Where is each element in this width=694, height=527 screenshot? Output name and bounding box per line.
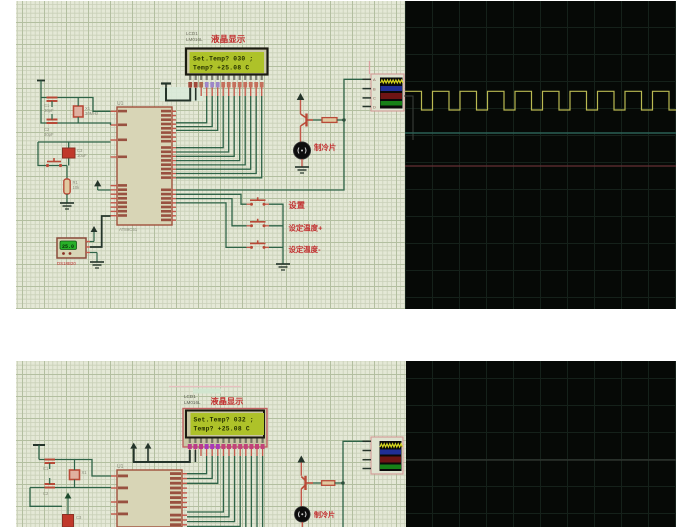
wire emitter to motor 2 xyxy=(300,489,302,507)
capacitor C1 2 xyxy=(45,459,56,461)
LCD frame 2 xyxy=(183,409,267,448)
crystal X1 xyxy=(74,106,84,117)
net highlight xyxy=(160,87,203,101)
wire MCU to K1 xyxy=(176,194,247,204)
capacitor C2 xyxy=(47,119,58,121)
wire LCD D3 to MCU xyxy=(176,96,240,161)
wire XTAL1 node xyxy=(41,98,111,112)
svg-text:制冷片: 制冷片 xyxy=(314,510,335,519)
wire MCU to K3 xyxy=(176,203,247,248)
oscilloscope pins xyxy=(363,77,377,109)
svg-text:30pF: 30pF xyxy=(44,132,54,137)
svg-text:Set.Temp? 030 ;: Set.Temp? 030 ; xyxy=(193,56,253,63)
power terminal for LCD VDD xyxy=(161,82,171,84)
svg-text:AT89C51: AT89C51 xyxy=(119,227,138,232)
wire XTAL2 node 2 xyxy=(30,488,111,507)
LCD part labels LCD1 / LM016L xyxy=(186,31,203,42)
wire LCD RS to MCU xyxy=(176,96,207,123)
oscilloscope mini screen xyxy=(380,78,403,109)
LCD screen xyxy=(190,52,265,73)
svg-text:X1: X1 xyxy=(82,470,88,475)
wire DQ to MCU xyxy=(90,216,111,247)
MCU right pins 2 xyxy=(170,472,187,526)
wire LCD D3 to MCU 2 xyxy=(187,456,240,526)
scope teal trace xyxy=(405,132,676,134)
wire LCD D4 to MCU xyxy=(176,96,245,165)
DS18B20 pins xyxy=(86,241,90,243)
wire LCD D6 to MCU 2 xyxy=(256,456,258,527)
LCD screen 2 xyxy=(191,413,265,435)
LCD pin name row 2 xyxy=(189,439,264,444)
svg-text:设定温度-: 设定温度- xyxy=(289,245,322,254)
svg-text:C3: C3 xyxy=(76,515,82,520)
wire LCD VSS/VDD elbow xyxy=(166,88,190,101)
wire to scope 2 xyxy=(343,441,363,483)
power arrow (motor supply) 2 xyxy=(298,456,306,463)
wire LCD E to MCU xyxy=(176,96,218,130)
svg-text:液晶显示: 液晶显示 xyxy=(211,33,246,44)
MCU left pins 2 xyxy=(111,475,128,516)
wire LCD ctrl 1 to MCU 2 xyxy=(187,456,212,479)
wire LCD D2 to MCU 2 xyxy=(187,456,235,522)
wire LCD D7 to MCU xyxy=(176,96,262,178)
svg-text:液晶显示: 液晶显示 xyxy=(211,396,244,406)
push button K1 (set) xyxy=(247,197,270,206)
junction node xyxy=(342,118,345,121)
wire LCD D0 to MCU 2 xyxy=(187,456,223,512)
wire LCD pin2 xyxy=(195,88,197,101)
power +5V arrow (sensor) xyxy=(91,226,98,232)
wire LCD ctrl 2 to MCU 2 xyxy=(187,456,218,483)
reset button xyxy=(47,158,61,162)
scope yellow square wave xyxy=(405,91,676,110)
push button K2 (temp up) xyxy=(247,219,270,228)
resistor R2 2 xyxy=(313,482,322,484)
svg-text:C2: C2 xyxy=(43,491,49,496)
LCD pin name row xyxy=(189,76,263,81)
power +5V arrow (EA) xyxy=(94,180,101,186)
push button K3 (temp down) xyxy=(247,240,270,249)
svg-text:LM016L: LM016L xyxy=(186,37,203,42)
wire to scope channel A xyxy=(344,79,363,120)
LCD text 2 xyxy=(194,417,254,433)
oscilloscope screen background (block 2) xyxy=(406,361,676,527)
svg-text:LCD1: LCD1 xyxy=(184,394,196,399)
svg-text:设定温度+: 设定温度+ xyxy=(289,224,324,233)
svg-text:30pF: 30pF xyxy=(44,108,54,113)
svg-text:设置: 设置 xyxy=(289,200,305,210)
LCD pin terminal boxes 2 xyxy=(188,444,265,449)
oscilloscope component body xyxy=(371,74,404,111)
wire XTAL2 node xyxy=(41,98,111,126)
oscilloscope screen background (block 1) xyxy=(405,1,676,309)
power arrow (motor supply) xyxy=(297,93,305,100)
LCD part labels 2 xyxy=(184,394,201,405)
svg-text:DS18B20: DS18B20 xyxy=(57,261,76,266)
svg-text:Set.Temp? 032 ;: Set.Temp? 032 ; xyxy=(194,417,254,424)
oscilloscope pins 2 xyxy=(363,441,372,468)
wire XTAL1 node 2 xyxy=(39,460,111,477)
power pin top-left xyxy=(37,80,45,82)
svg-text:A: A xyxy=(373,77,376,82)
MCU body 2 xyxy=(117,470,182,527)
svg-text:D: D xyxy=(373,104,376,109)
capacitor C3 electrolytic xyxy=(63,148,76,158)
LCD LCD1 frame xyxy=(186,49,268,75)
wire LCD D0 to MCU xyxy=(176,96,223,148)
temperature sensor U2 DS18B20 xyxy=(57,238,86,258)
crystal X1 2 xyxy=(70,470,80,480)
wire LCD D1 to MCU xyxy=(176,96,229,152)
LCD pin terminal boxes xyxy=(188,82,263,88)
svg-text:10k: 10k xyxy=(73,185,81,190)
wire LCD ctrl 0 to MCU 2 xyxy=(187,456,207,474)
svg-text:30MHz: 30MHz xyxy=(85,111,98,116)
capacitor C3 2 xyxy=(63,515,74,527)
wire LCD RW to MCU xyxy=(176,96,212,127)
svg-text:制冷片: 制冷片 xyxy=(314,143,336,152)
wire LCD D6 to MCU xyxy=(176,96,256,174)
svg-text:25.0: 25.0 xyxy=(62,244,74,250)
ground (sensor) xyxy=(90,252,97,254)
oscilloscope mini screen 2 xyxy=(380,441,402,471)
faint trace line 2 xyxy=(406,459,676,461)
svg-text:C1: C1 xyxy=(43,466,49,471)
wire LCD D5 to MCU 2 xyxy=(250,456,252,527)
wire LCD D4 to MCU 2 xyxy=(245,456,247,527)
net highlight 2 xyxy=(193,389,221,394)
svg-text:10uF: 10uF xyxy=(77,153,87,158)
svg-text:U1: U1 xyxy=(117,464,124,470)
wire collector xyxy=(300,100,302,114)
scope ghost trace in screen area xyxy=(404,96,413,140)
svg-text:B: B xyxy=(373,86,376,91)
svg-text:Temp? +25.08 C: Temp? +25.08 C xyxy=(194,426,250,433)
MCU right pins xyxy=(161,110,176,221)
wire PWM from MCU xyxy=(176,120,344,190)
wire LCD D2 to MCU xyxy=(176,96,234,156)
wire buttons common xyxy=(269,204,283,264)
wire LCD D7 to MCU 2 xyxy=(262,456,264,527)
resistor R2 (base) xyxy=(313,119,322,121)
transistor Q1 xyxy=(301,114,314,127)
schematic grid background (block 1) xyxy=(16,1,405,309)
resistor R1 xyxy=(66,166,68,180)
svg-text:C: C xyxy=(373,96,376,101)
svg-text:U1: U1 xyxy=(117,101,124,107)
wire LCD ground elbow 2 xyxy=(134,449,190,462)
MCU left pins xyxy=(111,110,128,217)
ground (motor) xyxy=(301,159,303,167)
ground top-left 2 xyxy=(33,444,45,446)
wire LCD D5 to MCU xyxy=(176,96,251,169)
capacitor C1 xyxy=(47,97,58,99)
schematic grid background (block 2) xyxy=(16,361,406,527)
svg-text:Temp? +25.08 C: Temp? +25.08 C xyxy=(193,65,249,72)
oscilloscope component body 2 xyxy=(371,437,403,474)
capacitor C2 2 xyxy=(45,483,56,485)
scope red trace xyxy=(405,165,676,167)
LCD text xyxy=(193,56,253,72)
svg-text:LCD1: LCD1 xyxy=(186,31,198,36)
motor (peltier) 2 xyxy=(295,507,311,523)
wire MCU to K2 xyxy=(176,199,247,226)
ground (buttons) xyxy=(276,263,290,265)
svg-text:LM016L: LM016L xyxy=(184,400,201,405)
MCU U1 AT89C51 body xyxy=(117,107,172,225)
motor (peltier) xyxy=(293,142,310,159)
oscilloscope probe stub xyxy=(369,61,371,74)
power arrows above MCU 2 xyxy=(130,443,137,449)
wire LCD D1 to MCU 2 xyxy=(187,456,229,517)
LCD pin stubs 2 xyxy=(190,449,263,456)
wire emitter to motor xyxy=(300,126,302,142)
ground (reset) xyxy=(60,202,74,204)
power arrow green 2 xyxy=(65,493,72,499)
wire LCD pin2 2 xyxy=(194,450,196,462)
LCD pin stubs xyxy=(190,88,262,97)
wire PWM down 2 xyxy=(342,483,344,527)
wire RST net xyxy=(38,142,111,166)
transistor Q1 2 xyxy=(301,476,313,490)
